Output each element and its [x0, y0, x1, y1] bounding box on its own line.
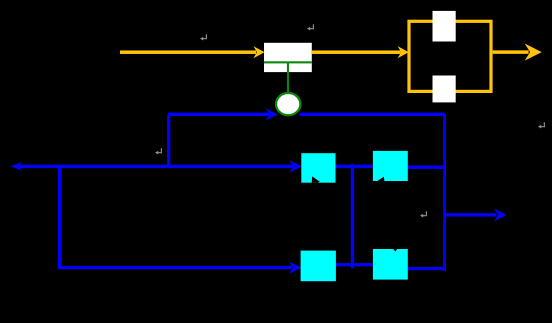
block: white box on top edge of plant [433, 11, 456, 42]
glyph: carriage return mark 1 [200, 34, 206, 40]
wire: blue output arrow [444, 210, 505, 221]
wire: orange output arrow [493, 45, 541, 59]
glyph: carriage return mark 3 [538, 122, 544, 128]
node: summing junction circle [276, 93, 300, 115]
block: white box on bottom edge of plant [433, 76, 456, 103]
block: white controller box [264, 43, 312, 72]
block: cyan box bottom-right with top notch [373, 249, 408, 280]
wire: blue feedback upper line (left part, into summing junction) [168, 109, 277, 119]
block: cyan box top-right with notch [373, 151, 408, 181]
glyph: carriage return mark 2 [307, 24, 313, 30]
wire: blue lower-left vertical branch [58, 165, 61, 270]
wire: orange line white box to plant rect [312, 47, 408, 57]
wire: green horizontal line inside white box [264, 61, 312, 63]
glyph: carriage return mark 4 [155, 148, 161, 154]
wire: blue link bottom-left box to bottom-right box [336, 263, 373, 266]
wire: blue feedback riser (left) [167, 115, 170, 168]
wire: green vertical drop to summing junction [287, 62, 289, 93]
wire: blue feedback upper line (right part, from summing junction to right bus) [300, 113, 445, 116]
glyph: carriage return mark 5 [420, 211, 426, 217]
wire: blue main horizontal line with left arrowhead [12, 161, 301, 171]
wire: blue link top-left box to top-right box [336, 165, 373, 168]
wire: blue link bottom-right box to right bus [408, 267, 445, 270]
wire: blue middle vertical link [351, 164, 354, 268]
wire: blue link top-right box to right bus [408, 166, 445, 169]
wire: blue bottom line into lower-left cyan box [58, 263, 301, 273]
block: orange rectangle outline (plant) [409, 21, 491, 91]
block: cyan box top-left with notch [301, 153, 335, 183]
block: cyan box bottom-left [301, 251, 336, 282]
wire: blue right vertical bus [443, 114, 446, 271]
wire: orange input line [120, 47, 264, 57]
